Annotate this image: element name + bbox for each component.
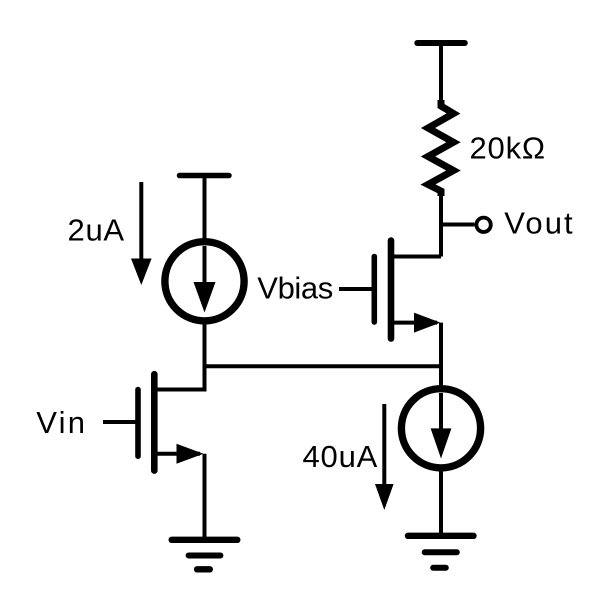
transistor M1 drain wire bbox=[157, 388, 205, 392]
transistor M2 source wire bbox=[394, 321, 437, 325]
node wire (middle horizontal) bbox=[203, 364, 442, 368]
2uA direction arrow bbox=[131, 182, 152, 285]
Vout stub wire bbox=[441, 223, 475, 227]
current source I2 circle bbox=[401, 389, 480, 468]
current source I2 arrow bbox=[431, 393, 452, 459]
svg-text:Vin: Vin bbox=[36, 405, 87, 440]
transistor M2 drain wire bbox=[394, 255, 441, 259]
transistor M2 source arrow bbox=[414, 313, 441, 333]
svg-text:2uA: 2uA bbox=[68, 213, 125, 248]
svg-text:40uA: 40uA bbox=[303, 439, 379, 474]
transistor M1 channel bar bbox=[151, 374, 158, 470]
transistor M2 channel bar bbox=[388, 241, 395, 339]
wire bbox=[203, 176, 207, 243]
wire bbox=[439, 190, 443, 257]
svg-text:20kΩ: 20kΩ bbox=[470, 131, 546, 166]
transistor M1 source arrow bbox=[177, 444, 204, 464]
wire bbox=[203, 454, 207, 539]
VDD rail right bbox=[417, 40, 465, 46]
transistor M1 gate bar bbox=[135, 390, 141, 457]
Vout terminal bbox=[476, 218, 490, 232]
ground left bbox=[172, 540, 238, 570]
transistor M1 gate wire bbox=[103, 420, 136, 424]
current source I1 arrow bbox=[194, 246, 216, 313]
ground right bbox=[408, 536, 474, 568]
resistor R1 20k zigzag bbox=[428, 100, 454, 196]
transistor M1 source wire bbox=[157, 452, 200, 456]
wire bbox=[439, 323, 443, 390]
transistor M2 gate wire bbox=[339, 287, 372, 291]
svg-text:Vbias: Vbias bbox=[257, 271, 333, 306]
wire bbox=[439, 466, 443, 535]
VDD rail left bbox=[180, 173, 230, 179]
wire bbox=[439, 43, 443, 107]
svg-text:Vout: Vout bbox=[504, 206, 574, 241]
transistor M2 gate bar bbox=[371, 257, 377, 323]
current source I1 circle bbox=[165, 242, 244, 321]
wire bbox=[203, 321, 207, 392]
40uA direction arrow bbox=[375, 404, 394, 510]
